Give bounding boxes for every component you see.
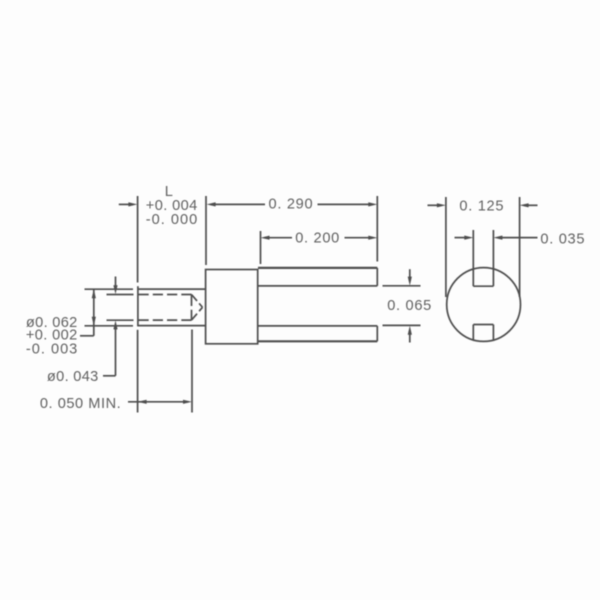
svg-text:0. 200: 0. 200 bbox=[295, 231, 339, 247]
end view top notch bbox=[473, 230, 493, 286]
shaft outline (side view left pin) bbox=[138, 286, 206, 326]
svg-text:ø0. 043: ø0. 043 bbox=[47, 369, 98, 385]
dimension 0.035 bbox=[455, 236, 538, 240]
dimension 0.125 bbox=[428, 197, 538, 297]
svg-text:0. 065: 0. 065 bbox=[387, 298, 431, 314]
dimension 0.290 bbox=[207, 196, 378, 262]
svg-text:0. 035: 0. 035 bbox=[540, 232, 584, 248]
dimension 0.200 bbox=[261, 231, 378, 264]
dimension 0.065 bbox=[383, 269, 421, 342]
dimension 0.050 MIN bbox=[128, 330, 192, 413]
svg-text:-0. 003: -0. 003 bbox=[26, 342, 77, 358]
svg-text:0. 290: 0. 290 bbox=[269, 196, 313, 212]
end view circle bbox=[447, 268, 521, 342]
end view bottom notch bbox=[473, 325, 493, 341]
dimension dia 0.062 bbox=[80, 289, 133, 336]
svg-text:0. 050 MIN.: 0. 050 MIN. bbox=[40, 396, 121, 412]
dimension dia 0.043 bbox=[103, 277, 134, 376]
dimension L: extension lines bbox=[138, 196, 206, 413]
top prong bbox=[258, 268, 377, 286]
bottom prong bbox=[258, 326, 377, 341]
dimension L: arrow bbox=[119, 202, 138, 206]
svg-text:-0. 000: -0. 000 bbox=[146, 212, 197, 228]
hidden drilled hole (dashed) bbox=[139, 295, 203, 321]
svg-text:0. 125: 0. 125 bbox=[459, 199, 503, 215]
body block (side view) bbox=[206, 270, 258, 344]
